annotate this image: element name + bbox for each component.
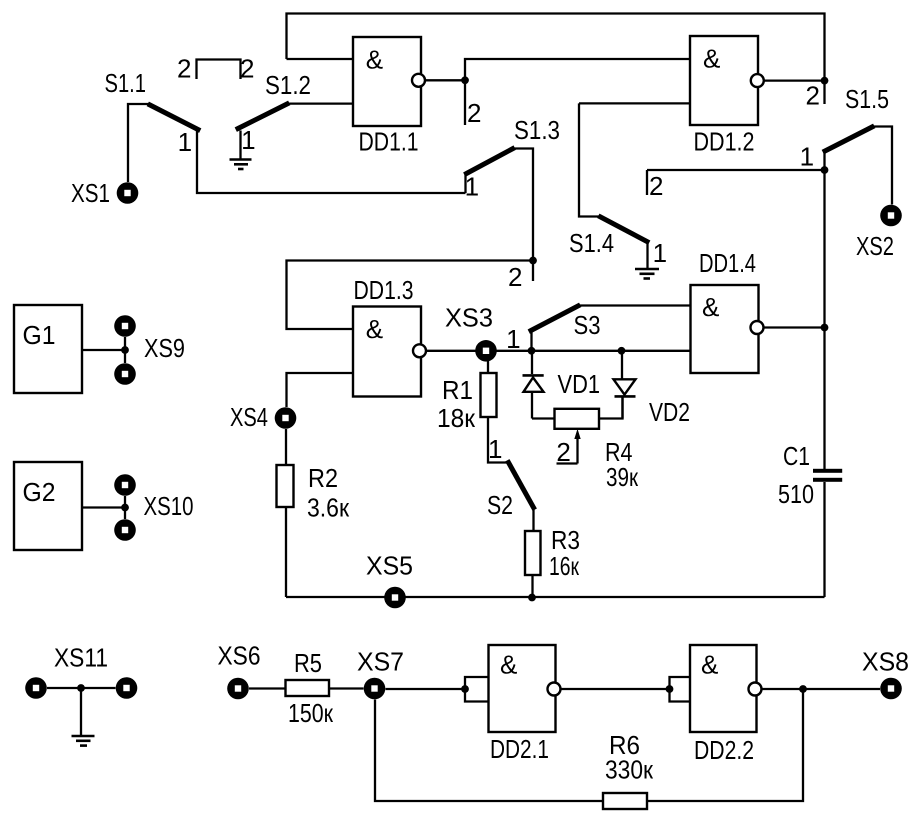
wire top feedback rail [287, 14, 825, 105]
connector XS6 [227, 678, 249, 700]
gate DD1.3 [353, 307, 426, 397]
node R6 riser junction [799, 685, 807, 693]
wire C1 bottom to rail [823, 482, 825, 597]
switch S2 arm [509, 463, 534, 508]
svg-text:DD1.2: DD1.2 [694, 127, 755, 157]
node DD2.2 input junction [666, 685, 674, 693]
svg-text:R1: R1 [442, 375, 473, 405]
wire DD1.3 input 2 from XS4 [287, 373, 354, 407]
svg-text:VD1: VD1 [558, 369, 601, 399]
ground under S1.4 [635, 269, 659, 279]
resistor R3 [525, 531, 541, 575]
connector XS1 [117, 182, 139, 204]
svg-text:XS10: XS10 [144, 491, 194, 521]
wire DD1.1 input 1 [287, 58, 354, 60]
svg-text:DD1.1: DD1.1 [359, 127, 419, 157]
resistor R5 [286, 680, 330, 696]
wire S3 pole tick [530, 331, 532, 351]
node DD2.1 input junction [461, 685, 469, 693]
svg-text:XS4: XS4 [230, 402, 268, 432]
connector XS11 pair [25, 677, 137, 699]
wire S1.4 contact 2 tick [646, 170, 648, 195]
ground under S1.2 [230, 160, 252, 170]
svg-text:XS9: XS9 [144, 333, 185, 363]
svg-text:1: 1 [465, 172, 479, 202]
wire XS4 to R2 [285, 429, 287, 465]
svg-text:R5: R5 [294, 648, 322, 678]
connector XS2 [880, 205, 902, 227]
wire bottom rail [286, 596, 825, 598]
svg-text:S1.3: S1.3 [514, 115, 560, 145]
svg-text:S1.2: S1.2 [265, 70, 311, 100]
svg-text:DD2.2: DD2.2 [694, 735, 754, 765]
wire S2 to R3 [532, 509, 534, 532]
diode VD1 [523, 351, 544, 419]
node R3 rail junction [528, 594, 536, 602]
wire DD2.1 input joiner [465, 677, 489, 702]
node S3 pole junction [528, 347, 536, 355]
wire S1.5 top link to XS2 [873, 127, 893, 205]
svg-text:XS7: XS7 [357, 647, 404, 677]
wire XS11 ground drop [80, 688, 82, 735]
svg-text:S2: S2 [487, 490, 513, 520]
svg-text:VD2: VD2 [649, 397, 690, 427]
svg-text:39к: 39к [606, 462, 638, 492]
node DD1.4 output junction [821, 324, 829, 332]
wire R5 to XS7 [329, 687, 364, 689]
svg-text:2: 2 [556, 437, 570, 467]
node DD1.1 output junction [461, 76, 469, 84]
switch S1.1 arm [150, 105, 198, 130]
node S1.3 riser junction [529, 257, 537, 265]
svg-text:DD2.1: DD2.1 [490, 734, 549, 764]
svg-text:16к: 16к [549, 551, 579, 581]
svg-text:2: 2 [240, 54, 254, 84]
wire contacts-2 bracket above S1.1 S1.2 [197, 60, 241, 80]
gate DD1.1 [353, 37, 425, 126]
wire DD1.4 output [764, 326, 825, 328]
wire DD1.1 output [426, 79, 466, 81]
svg-text:XS1: XS1 [71, 178, 110, 208]
svg-text:G1: G1 [23, 320, 56, 350]
svg-text:DD1.4: DD1.4 [699, 248, 756, 278]
wire XS3 to DD1.4 input 2 [497, 350, 691, 352]
svg-text:&: & [702, 292, 719, 322]
svg-text:XS8: XS8 [862, 647, 909, 677]
wire S1.3 top link and riser x533 [513, 149, 533, 282]
resistor R4 [555, 409, 600, 429]
connector XS7 [364, 678, 386, 700]
connector XS9 pair [114, 315, 136, 385]
wire S1.4 contact 1 tick [646, 242, 648, 268]
svg-text:DD1.3: DD1.3 [354, 275, 414, 305]
ground under XS11 [72, 736, 95, 746]
wire R3 to rail [531, 575, 533, 598]
svg-text:S1.5: S1.5 [845, 84, 889, 114]
wire DD1.3 output to XS3 [426, 350, 476, 352]
connector XS3 [475, 340, 497, 362]
wire S3 to DD1.4 input 1 [579, 304, 691, 306]
wire XS7 drop to bottom loop [375, 700, 603, 802]
svg-text:&: & [701, 650, 718, 680]
svg-text:18к: 18к [437, 403, 476, 433]
node DD1.2 output junction [821, 77, 829, 85]
svg-text:2: 2 [806, 80, 820, 110]
svg-text:R2: R2 [308, 463, 338, 493]
wire node riser x465 with S1.3 contact 2 tick [465, 59, 690, 125]
generator G2 box [14, 462, 82, 550]
svg-text:G2: G2 [23, 477, 56, 507]
wire S1.5 contact 1 down to C1 [823, 152, 825, 469]
wire S1.3 pole tick [464, 174, 466, 193]
svg-text:1: 1 [653, 238, 667, 268]
gate DD1.4 [691, 285, 764, 373]
wire DD2.2 input joiner [670, 677, 691, 702]
switch S3 arm [531, 306, 578, 331]
wire DD2.1 output to DD2.2 [561, 688, 670, 690]
svg-text:2: 2 [649, 171, 663, 201]
wire R4 right to VD2 [599, 396, 623, 418]
svg-text:&: & [703, 44, 720, 74]
wire XS1 riser to S1.1 pole [128, 104, 150, 182]
connector XS10 pair [114, 474, 136, 541]
svg-text:XS5: XS5 [366, 551, 413, 581]
svg-text:&: & [500, 650, 517, 680]
svg-text:S1.1: S1.1 [105, 68, 147, 98]
svg-text:XS11: XS11 [54, 643, 108, 673]
wire R6 to riser [647, 689, 803, 801]
wire R2 bottom leg [285, 507, 287, 597]
gate DD2.2 [690, 645, 762, 732]
resistor R2 [277, 465, 294, 507]
switch S1.4 arm [601, 217, 648, 242]
wiper arrow of R4 [557, 429, 581, 464]
wire S1.4 pole drop [579, 103, 600, 216]
svg-text:150к: 150к [288, 698, 334, 728]
switch S1.3 arm [467, 149, 513, 174]
svg-text:1: 1 [178, 127, 192, 157]
svg-text:XS2: XS2 [856, 231, 894, 261]
svg-text:1: 1 [241, 125, 255, 155]
wire DD2.2 output to XS8 [762, 688, 881, 690]
wire G1 to XS9 [82, 349, 125, 351]
wire DD1.2 output [763, 79, 825, 81]
connector XS8 [880, 678, 902, 700]
svg-text:XS6: XS6 [218, 641, 261, 671]
svg-text:3.6к: 3.6к [307, 493, 350, 523]
svg-text:2: 2 [508, 262, 522, 292]
wire DD1.1 input 2 from S1.2 [288, 102, 353, 104]
gate DD1.2 [690, 36, 764, 125]
svg-text:S3: S3 [574, 310, 601, 340]
svg-text:330к: 330к [605, 755, 654, 785]
gate DD2.1 [489, 645, 561, 732]
resistor R1 [481, 373, 497, 417]
connector XS5 [384, 587, 406, 609]
wire S1.1 contact 1 tick and run to S1.3 [197, 130, 466, 194]
switch S1.5 arm [825, 127, 872, 151]
svg-text:XS3: XS3 [445, 303, 493, 333]
wire XS3 down to R1 [487, 361, 489, 373]
connector XS4 [275, 407, 297, 429]
wire XS6 to R5 [249, 687, 286, 689]
svg-text:1: 1 [800, 141, 814, 171]
svg-text:C1: C1 [783, 441, 810, 471]
resistor R6 [603, 793, 647, 809]
wire VD1 bottom to R4 [532, 417, 555, 419]
wire DD1.2 input 2 [579, 102, 690, 104]
wire R1 bottom to S2 [488, 417, 508, 463]
svg-text:&: & [366, 314, 383, 344]
svg-text:2: 2 [177, 54, 191, 84]
wire cross link y260 to DD1.3 input 1 [287, 261, 534, 330]
svg-text:2: 2 [467, 98, 481, 128]
node VD2 top junction [618, 347, 626, 355]
switch S1.2 arm [238, 104, 287, 129]
wire S1.2 pole to ground [239, 131, 241, 159]
wire y170 to S1.5 [647, 169, 825, 171]
svg-text:1: 1 [506, 324, 520, 354]
node S1.5 contact junction [821, 166, 829, 174]
diode VD2 [614, 351, 636, 419]
svg-text:S1.4: S1.4 [569, 228, 614, 258]
svg-text:&: & [366, 45, 383, 75]
svg-text:510: 510 [778, 479, 814, 509]
capacitor C1 [813, 469, 842, 482]
wire XS7 to DD2.1 [386, 688, 466, 690]
generator G1 box [14, 305, 82, 393]
wire G2 to XS10 [82, 506, 125, 508]
svg-text:1: 1 [488, 434, 502, 464]
